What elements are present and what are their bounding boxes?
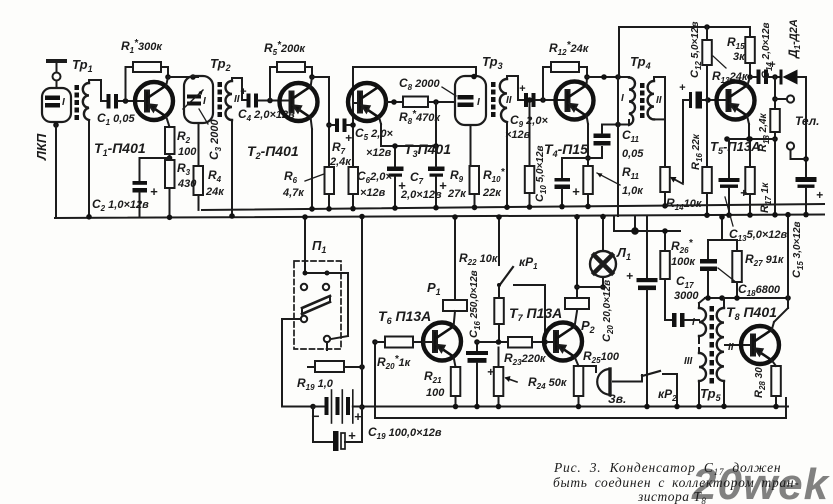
svg-text:+: + [345, 131, 352, 145]
svg-text:×12в: ×12в [505, 129, 531, 141]
resistor R21 [451, 357, 461, 410]
resistor R19 [308, 342, 365, 372]
svg-text:Тр1: Тр1 [72, 57, 93, 74]
capacitor C19 (electrolytic across battery) [313, 407, 362, 452]
svg-text:С15 3,0×12в: С15 3,0×12в [791, 221, 805, 278]
svg-text:С5 2,0×: С5 2,0× [355, 126, 393, 142]
svg-text:R16 22к: R16 22к [690, 133, 704, 170]
svg-text:С16 250,0×12в: С16 250,0×12в [468, 270, 482, 338]
resistor R27 [732, 240, 742, 298]
resistor R2 [165, 127, 175, 161]
capacitor C4 [247, 94, 291, 108]
capacitor C16 (electrolytic) [466, 339, 488, 409]
svg-text:+: + [626, 269, 633, 283]
svg-text:II: II [506, 95, 512, 106]
svg-text:Тр3: Тр3 [482, 54, 503, 71]
wire collector T3 to R8 [387, 99, 404, 105]
svg-text:R18 2,4к: R18 2,4к [757, 112, 771, 152]
svg-text:Тр4: Тр4 [630, 54, 651, 71]
wire emitter T2 down [309, 117, 315, 212]
svg-text:R27 91к: R27 91к [745, 252, 785, 268]
svg-text:3к: 3к [733, 51, 746, 63]
resistor R18 [770, 77, 780, 218]
transistor T4 [556, 82, 594, 120]
relay coil P2 [565, 214, 589, 327]
svg-text:Т2-П401: Т2-П401 [247, 143, 299, 161]
svg-text:I: I [203, 96, 206, 107]
capacitor C17 (across winding I) [672, 313, 699, 327]
switch P1 (dashed box) [294, 261, 341, 349]
svg-text:Т5-П13А: Т5-П13А [710, 139, 761, 156]
telephone jack terminals [775, 95, 806, 159]
resistor R23 [508, 337, 555, 348]
svg-text:R1410к: R1410к [666, 196, 703, 212]
svg-text:0,05: 0,05 [622, 148, 644, 160]
svg-text:II: II [728, 342, 734, 353]
transistor T6 [423, 323, 461, 361]
svg-text:R7: R7 [332, 140, 346, 156]
wire collector T1 up [166, 77, 168, 87]
svg-text:R4: R4 [208, 168, 222, 184]
resistor R8 [403, 97, 455, 149]
node collector T1 [165, 74, 198, 80]
resistor R26 [660, 228, 672, 320]
svg-text:2,0×12в: 2,0×12в [400, 189, 442, 201]
pointer R6 [305, 174, 324, 181]
svg-text:С20 20,0×12в: С20 20,0×12в [601, 280, 615, 342]
resistor R9 [470, 166, 480, 210]
wire emitter T3 down [379, 117, 436, 146]
svg-text:+: + [679, 82, 686, 94]
svg-text:R25100: R25100 [583, 349, 620, 365]
transistor T8 [741, 326, 779, 364]
svg-text:Р1: Р1 [427, 280, 441, 297]
svg-text:+: + [150, 184, 158, 199]
svg-text:Т4-П15: Т4-П15 [544, 141, 588, 159]
svg-text:22к: 22к [482, 187, 502, 199]
transistor T5 [717, 82, 755, 120]
wire right border riser [785, 212, 791, 298]
ferrite antenna coil I (ЛКП circuit) [42, 88, 71, 124]
main bus rail upper [202, 204, 824, 210]
svg-text:20wek: 20wek [691, 460, 831, 504]
resistor R1 (feedback) [126, 62, 169, 101]
pointer C18 [718, 268, 737, 283]
switch contact kP1 [514, 285, 548, 345]
resistor R17 [745, 136, 755, 218]
svg-text:R28 30: R28 30 [753, 367, 767, 398]
svg-text:Т7 П13А: Т7 П13А [509, 305, 562, 323]
svg-text:×12в: ×12в [366, 147, 392, 159]
svg-text:Зв.: Зв. [608, 392, 626, 406]
resistor R20 [372, 337, 423, 348]
resistor R7 [349, 122, 359, 211]
switch P1 contacts [301, 271, 348, 343]
transistor T1 [135, 82, 173, 120]
svg-text:кР1: кР1 [519, 255, 538, 271]
svg-text:С12 5,0×12в: С12 5,0×12в [689, 21, 703, 78]
svg-text:III: III [684, 356, 693, 367]
wire emitter T4 down [585, 116, 591, 167]
node collector T4 [584, 74, 629, 86]
pointer R11 [597, 173, 620, 185]
svg-text:R6: R6 [284, 169, 298, 185]
svg-text:Л1: Л1 [616, 245, 631, 262]
capacitor C18 [700, 240, 717, 298]
svg-text:24к: 24к [205, 186, 225, 198]
resistor R10 [525, 97, 535, 210]
capacitor C1 [107, 94, 147, 109]
svg-text:С17: С17 [676, 274, 694, 290]
wire base T3 AGC riser [353, 67, 476, 103]
svg-text:Тр5: Тр5 [700, 386, 722, 403]
svg-text:+: + [572, 184, 580, 199]
svg-text:R26*: R26* [671, 238, 694, 255]
svg-text:R17 1к: R17 1к [759, 182, 773, 213]
resistor R22 [494, 214, 513, 342]
top rail [619, 26, 750, 28]
svg-text:3000: 3000 [674, 290, 699, 302]
wire parallel block R27 C18 [705, 214, 791, 301]
capacitor C15 (electrolytic) [796, 177, 817, 217]
wire base T7 net [477, 339, 508, 345]
resistor R25 [574, 357, 584, 410]
svg-text:R21: R21 [424, 369, 442, 385]
svg-text:кР2: кР2 [658, 387, 677, 403]
svg-text:Тр2: Тр2 [210, 56, 231, 73]
svg-text:С7: С7 [410, 170, 424, 186]
wire top rail risers [618, 27, 619, 216]
wire P1 to battery minus [282, 319, 301, 407]
svg-text:1,0к: 1,0к [622, 185, 644, 197]
svg-text:С3 2000: С3 2000 [207, 118, 223, 160]
svg-text:R2: R2 [177, 129, 191, 145]
svg-text:С2 1,0×12в: С2 1,0×12в [92, 197, 149, 213]
capacitor C6 [387, 143, 404, 211]
svg-text:R11: R11 [622, 165, 640, 181]
svg-text:С186800: С186800 [738, 282, 781, 298]
svg-text:II: II [234, 94, 240, 105]
capacitor C12 [683, 92, 727, 183]
switch contact kP2 [642, 371, 680, 409]
transistor T2 [280, 83, 318, 121]
svg-text:II: II [656, 95, 662, 106]
resistor R15 [745, 27, 755, 80]
pointer C13 [725, 197, 733, 226]
svg-text:I: I [621, 93, 624, 104]
resistor R12 (feedback) [543, 62, 587, 100]
resistor R16 [702, 100, 712, 219]
svg-text:R12*24к: R12*24к [549, 40, 590, 57]
transformer Tr5 winding III [696, 348, 706, 409]
capacitor C2 (electrolytic) [133, 158, 170, 218]
svg-text:+: + [240, 86, 247, 98]
bottom bus [282, 406, 788, 408]
svg-text:R20*1к: R20*1к [377, 354, 412, 371]
svg-text:Т8 П401: Т8 П401 [726, 304, 777, 322]
wire collector T8 [772, 298, 789, 331]
svg-text:С62,0×: С62,0× [357, 169, 392, 185]
transformer Tr4 core [640, 83, 645, 118]
diode D1 D2A [780, 70, 807, 85]
node collector T2 [309, 74, 329, 125]
svg-text:R5*200к: R5*200к [264, 40, 306, 57]
svg-text:+: + [354, 409, 362, 424]
transformer Tr4 winding II [648, 77, 665, 167]
resistor R13 [702, 24, 712, 99]
svg-text:R9: R9 [450, 168, 464, 184]
wire Tr2 to R4 [198, 123, 200, 166]
capacitor C9 [524, 93, 566, 107]
transformer Tr2 core [218, 82, 223, 117]
node ЛКП lead [53, 122, 59, 218]
capacitor C20 (electrolytic) [637, 216, 658, 409]
svg-text:R10*: R10* [483, 167, 506, 184]
capacitor C5 [329, 103, 358, 132]
svg-text:×12в: ×12в [360, 187, 386, 199]
wire collector T5 [747, 77, 757, 87]
main bus rail lower [55, 215, 824, 219]
svg-text:R19 1,0: R19 1,0 [297, 376, 334, 392]
svg-text:С14 2,0×12в: С14 2,0×12в [760, 22, 774, 79]
transformer Tr5 core [710, 306, 715, 384]
svg-text:+: + [519, 83, 526, 95]
transformer Tr2 winding II [226, 78, 247, 219]
battery Б [310, 390, 362, 423]
capacitor C13 (electrolytic) [719, 139, 740, 218]
transformer Tr2 tuned circuit I [183, 76, 213, 123]
potentiometer R24 [494, 348, 517, 410]
svg-text:+: + [816, 188, 823, 202]
capacitor C10 (electrolytic) [555, 158, 589, 209]
relay coil P1 [443, 214, 467, 327]
transformer Tr5 winding II [717, 298, 752, 409]
svg-text:С1 0,05: С1 0,05 [97, 111, 135, 127]
resistor R3 [165, 160, 175, 220]
svg-text:4,7к: 4,7к [282, 187, 305, 199]
wire long riser battery plus [359, 214, 365, 410]
resistor R5 (feedback) [270, 62, 312, 101]
wire right rail [803, 77, 809, 178]
svg-text:С8 2000: С8 2000 [399, 76, 441, 92]
switch P1 riser from bus [302, 214, 308, 273]
pointer C8 [442, 87, 456, 96]
svg-text:R3: R3 [177, 161, 191, 177]
svg-text:С10 5,0×12в: С10 5,0×12в [534, 145, 548, 202]
svg-text:Р2: Р2 [581, 318, 595, 335]
svg-text:Т6 П13А: Т6 П13А [378, 308, 431, 326]
svg-text:Т1-П401: Т1-П401 [94, 140, 146, 158]
short bus segment [614, 216, 680, 234]
wire emitter T1 down [166, 116, 170, 127]
resistor R6 [325, 122, 335, 211]
capacitor C7 [428, 146, 445, 211]
transistor T3 [348, 83, 386, 121]
svg-text:Д1-Д2А: Д1-Д2А [786, 19, 802, 59]
svg-text:100к: 100к [671, 256, 696, 268]
transformer Tr4 winding I [629, 78, 635, 126]
transformer Tr1 core [75, 85, 80, 120]
pointer C3 [199, 109, 208, 124]
resistor R4 [194, 166, 204, 210]
svg-text:R23220к: R23220к [504, 351, 547, 367]
svg-text:R1*300к: R1*300к [121, 38, 163, 55]
transistor T7 [544, 323, 582, 361]
svg-text:I: I [477, 97, 480, 108]
svg-text:С11: С11 [622, 128, 640, 144]
svg-text:100: 100 [178, 146, 197, 158]
svg-text:Т3П401: Т3П401 [404, 141, 451, 159]
svg-text:+: + [439, 178, 447, 193]
svg-text:100: 100 [426, 387, 445, 399]
svg-text:R24 50к: R24 50к [528, 375, 568, 391]
lamp L1 [577, 214, 616, 290]
resistor R11 [583, 166, 593, 209]
svg-text:27к: 27к [447, 188, 467, 200]
antenna [48, 61, 65, 88]
resistor R28 [771, 360, 781, 409]
svg-text:С19 100,0×12в: С19 100,0×12в [368, 425, 442, 441]
transformer Tr3 winding II [500, 76, 524, 210]
aux bottom rail [375, 342, 786, 418]
transformer Tr1 winding II [83, 80, 107, 220]
potentiometer R14 [660, 167, 683, 209]
svg-text:+: + [348, 428, 356, 443]
svg-text:R22 10к: R22 10к [459, 251, 499, 267]
svg-text:П1: П1 [312, 238, 326, 255]
svg-text:R15: R15 [727, 35, 745, 51]
transformer Tr3 tuned circuit with C8 [455, 74, 486, 166]
transformer Tr3 core [491, 82, 496, 117]
transformer Tr5 winding I [685, 298, 707, 343]
svg-text:Тел.: Тел. [795, 114, 820, 128]
capacitor C11 [588, 120, 629, 158]
svg-text:ЛКП: ЛКП [34, 133, 49, 161]
svg-text:I: I [692, 317, 695, 328]
svg-text:R8*470к: R8*470к [399, 109, 441, 126]
buzzer Zv [579, 366, 643, 395]
svg-text:I: I [62, 97, 65, 108]
pointer R13 [713, 56, 726, 68]
wire base T6 net [423, 341, 433, 343]
capacitor C14 [757, 70, 781, 85]
wire emitter T5 [724, 116, 775, 142]
